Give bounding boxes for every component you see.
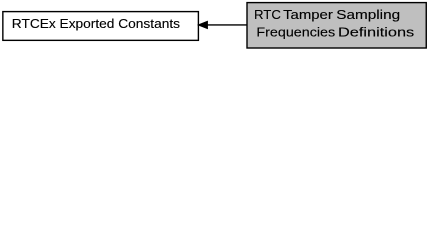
- svg-text:Frequencies: Frequencies: [256, 25, 335, 40]
- svg-text:RTCEx Exported Constants: RTCEx Exported Constants: [12, 16, 181, 31]
- svg-text:RTC: RTC: [254, 7, 281, 22]
- edge arrowhead pointing left: [198, 21, 208, 29]
- background: [0, 0, 431, 51]
- svg-text:Definitions: Definitions: [338, 25, 415, 40]
- node box: RTCEx Exported Constants: [3, 12, 199, 41]
- edge wire: from grey node to left node: [207, 24, 247, 26]
- svg-text:Tamper: Tamper: [283, 7, 333, 22]
- node box (current, grey): RTC Tamper Sampling Frequencies Definitions: [247, 3, 426, 48]
- svg-text:Sampling: Sampling: [336, 7, 400, 22]
